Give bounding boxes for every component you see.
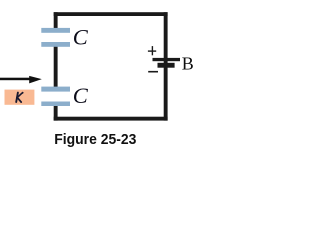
wire: left branch, top rail down to capacitor C1 (54, 12, 58, 29)
wire: bottom rail (54, 117, 168, 121)
dielectric constant kappa highlight box (5, 90, 35, 105)
battery + terminal sign (148, 46, 156, 55)
svg-text:Figure 25-23: Figure 25-23 (54, 132, 136, 148)
svg-text:C: C (73, 83, 89, 108)
dielectric insertion arrow (0, 76, 42, 84)
svg-text:B: B (182, 54, 194, 74)
label kappa (dielectric constant) (16, 92, 23, 102)
wire: right branch (through battery B) (164, 12, 168, 120)
wire: left branch, capacitor C2 down to bottom rail (54, 105, 58, 121)
wire: top rail (54, 12, 168, 16)
wire: left branch, between capacitor C1 and capacitor C2 (54, 46, 58, 88)
capacitor C2 (lower) plates (41, 87, 70, 106)
capacitor C1 (upper) plates (41, 28, 70, 47)
battery - terminal sign (148, 71, 158, 73)
svg-text:C: C (73, 25, 89, 50)
battery B plates (153, 58, 181, 68)
